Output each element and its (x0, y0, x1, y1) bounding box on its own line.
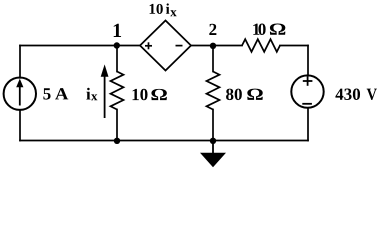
wire bottom rail (20, 140, 308, 142)
node dot at node 1 (114, 42, 120, 48)
resistor R3 10 ohm horizontal zigzag (242, 39, 280, 52)
ground symbol (200, 141, 226, 168)
node label 1 (114, 24, 121, 37)
dependent source U1 diamond (140, 21, 191, 71)
wire left rail lower (19, 110, 21, 141)
wire resistor R3 right lead to right rail corner (280, 45, 308, 47)
minus sign inside diamond (176, 45, 183, 47)
label 430 V (voltage source value) (335, 88, 376, 100)
plus sign inside voltage source (303, 76, 313, 86)
label ix (branch current) (86, 88, 97, 101)
wire top-left segment (left rail to node 1 to diamond) (20, 45, 140, 47)
label 10 ohm (R3) (253, 23, 285, 34)
label 10ix (dependent source gain) (150, 3, 177, 16)
plus sign inside diamond (145, 42, 152, 49)
label 80 ohm (R2) (226, 89, 263, 100)
wire right rail upper (307, 46, 309, 76)
wire node 1 to resistor R1 top (116, 46, 118, 72)
wire left rail upper (19, 46, 21, 78)
node dot at node 2 (210, 43, 216, 49)
minus sign inside voltage source (302, 103, 312, 105)
resistor R2 80 ohm vertical zigzag (207, 72, 220, 110)
node label 2 (209, 24, 216, 35)
wire node 2 to resistor R2 top (212, 46, 214, 72)
current source I1 5A circle (4, 78, 36, 110)
node dot bottom under R1 (114, 138, 120, 144)
voltage source V1 430V circle (291, 75, 323, 107)
resistor R1 10 ohm vertical zigzag (111, 72, 124, 110)
label 10 ohm (R1) (133, 89, 167, 100)
current arrow ix (101, 64, 109, 118)
node dot bottom under R2 (ground junction) (210, 138, 216, 144)
label 5 A (current source value) (43, 88, 68, 99)
wire resistor R2 bottom lead (212, 110, 214, 141)
wire right rail lower (307, 109, 309, 141)
wire resistor R1 bottom lead (116, 110, 118, 141)
wire diamond to node 2 (191, 45, 242, 47)
current source I1 arrow (16, 79, 23, 106)
